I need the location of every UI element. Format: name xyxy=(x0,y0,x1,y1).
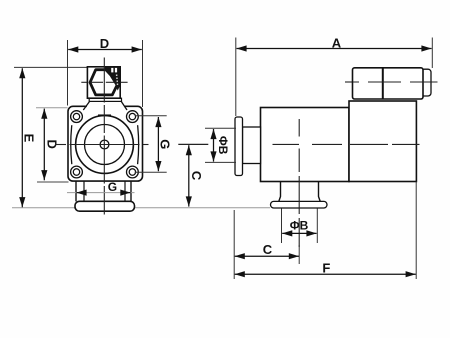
cover plate to hide flange top edge middle xyxy=(87,105,125,109)
dome shoulder right xyxy=(121,102,127,111)
svg-text:ΦB: ΦB xyxy=(290,219,309,233)
vertical center line of left view xyxy=(103,58,105,215)
extension line top of inner D (gray) xyxy=(36,107,68,109)
bolt hole top-left xyxy=(71,111,83,123)
connector center line xyxy=(345,81,352,83)
bottom neck inner walls xyxy=(83,181,85,201)
svg-text:F: F xyxy=(322,261,330,276)
left port neck xyxy=(243,127,261,164)
bottom port flange xyxy=(271,201,328,208)
body arc behind flange right xyxy=(138,125,139,164)
connector box xyxy=(353,68,424,99)
connector cap xyxy=(421,69,431,96)
hex nut in fitting xyxy=(90,70,118,95)
svg-text:E: E xyxy=(21,134,36,143)
svg-text:C: C xyxy=(263,242,273,257)
dimension E xyxy=(21,68,23,207)
inner circle xyxy=(85,125,125,165)
dimension D (top, horizontal) xyxy=(67,40,69,106)
bottom neck outer walls xyxy=(75,181,77,201)
svg-text:G: G xyxy=(158,139,173,149)
dimension C left xyxy=(188,145,190,206)
left flange disc xyxy=(235,117,243,176)
dimension G right xyxy=(135,115,167,117)
connector center line inner xyxy=(353,81,438,83)
big outer circle xyxy=(76,116,134,174)
flange square xyxy=(68,106,143,181)
dimension PhiB bottom xyxy=(281,209,283,244)
center hole xyxy=(100,140,109,149)
svg-text:A: A xyxy=(332,35,342,50)
extension line bottom of E (baseline, gray) xyxy=(12,207,75,209)
dimension G bottom xyxy=(67,192,135,194)
extension for F right xyxy=(415,182,417,280)
svg-text:G: G xyxy=(108,180,117,194)
svg-text:C: C xyxy=(189,171,204,181)
dimension C bottom xyxy=(235,255,299,257)
extension line bottom of inner D xyxy=(37,181,69,183)
hatch patch in fitting corner xyxy=(105,67,121,91)
connector divider xyxy=(382,68,384,99)
dimension F xyxy=(235,273,416,275)
solenoid tube xyxy=(349,101,416,182)
bottom hex flange xyxy=(75,201,135,211)
vertical center line of bottom port xyxy=(298,119,300,247)
dome top chord xyxy=(98,114,111,116)
dimension A xyxy=(235,38,237,117)
body arc behind flange left xyxy=(71,125,72,164)
svg-text:ΦB: ΦB xyxy=(216,136,230,155)
hatch white slots xyxy=(111,68,113,73)
dimension PhiB left xyxy=(205,127,236,129)
port centerline extension xyxy=(298,245,300,264)
horizontal center line of left view xyxy=(55,144,149,146)
top fitting body xyxy=(87,67,120,98)
extension for C bottom / F left xyxy=(233,210,235,279)
top fitting base plate xyxy=(89,98,121,101)
dimension D (vertical inner) xyxy=(43,109,45,181)
fitting cross ticks xyxy=(81,81,127,83)
bolt hole bottom-left xyxy=(71,166,83,178)
valve body xyxy=(261,108,350,182)
bottom port neck xyxy=(279,182,281,202)
svg-text:D: D xyxy=(100,36,109,51)
extension line top of E xyxy=(14,66,94,68)
bolt hole top-right xyxy=(126,111,138,123)
dome shoulder left xyxy=(83,102,89,111)
bolt hole bottom-right xyxy=(126,166,138,178)
horizontal center line of side view xyxy=(178,143,419,145)
